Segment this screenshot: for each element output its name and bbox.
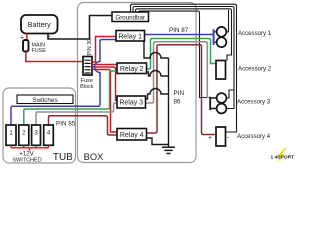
wire red pin30 feed to relay 2	[92, 64, 117, 66]
wire ground accessory 4 to groundbar	[131, 4, 237, 132]
svg-text:PIN: PIN	[174, 90, 185, 97]
svg-text:Switches: Switches	[32, 97, 57, 104]
main fuse F1	[23, 40, 29, 52]
wire ground relay 3 (with hop)	[146, 89, 169, 99]
wire red pin30 feed to relay 1	[92, 37, 116, 63]
fuse block FB1	[83, 57, 92, 76]
accessory 4 connector	[208, 127, 229, 146]
svg-text:BOX: BOX	[84, 152, 104, 162]
switch SW2	[19, 125, 29, 145]
svg-text:Battery: Battery	[28, 20, 51, 29]
wire gray output relay 3 to accessory 3	[146, 42, 210, 103]
wire maroon output relay 4 to accessory 4	[147, 45, 216, 135]
wire red pin30 feed to relay 3	[92, 67, 117, 101]
wire gray coil relay 3 to switch 3	[36, 103, 117, 125]
switch SW3	[32, 125, 41, 145]
svg-text:+: +	[208, 134, 212, 141]
wire ground relay 2 (with hop)	[147, 71, 169, 77]
relay U1	[116, 31, 145, 42]
logo 14SPORT	[271, 148, 295, 164]
switch SW4	[44, 125, 54, 145]
wire red pin30 feed to relay 4	[92, 70, 117, 133]
accessory 3 connector	[209, 93, 226, 113]
wire ground relay 1 (with hop)	[144, 41, 169, 58]
svg-text:Relay 3: Relay 3	[119, 100, 143, 107]
wire feed accessory 3 from groundbar side	[138, 11, 209, 97]
svg-text:86: 86	[174, 99, 182, 106]
svg-text:PIN 85: PIN 85	[56, 121, 76, 128]
accessory 2 connector	[216, 61, 226, 80]
groundbar GB	[112, 12, 149, 22]
svg-text:FUSE: FUSE	[32, 48, 47, 54]
svg-text:Accessory 3: Accessory 3	[237, 98, 271, 105]
svg-text:Relay 4: Relay 4	[120, 132, 144, 139]
svg-text:PIN 30: PIN 30	[87, 39, 93, 56]
wire ground relay 4	[147, 138, 169, 145]
svg-text:-: -	[227, 134, 229, 141]
svg-text:Accessory 2: Accessory 2	[238, 65, 272, 72]
wire green output relay 2 to accessory 2	[147, 39, 217, 70]
+12V bus wire	[11, 145, 49, 151]
wire battery + to main fuse	[26, 34, 28, 41]
enclosure BOX	[78, 3, 197, 163]
switch SW1	[6, 125, 16, 145]
svg-text:Accessory 1: Accessory 1	[238, 30, 272, 37]
svg-text:1 4SPORT: 1 4SPORT	[271, 155, 295, 161]
wire maroon coil relay 4 to switch 4	[49, 116, 118, 135]
wire main fuse to fuse block	[26, 52, 83, 62]
accessory 1 connector	[213, 27, 227, 47]
svg-text:TUB: TUB	[53, 152, 73, 163]
switches label box	[17, 95, 73, 104]
wire blue output relay 1 to accessory 1	[145, 34, 214, 36]
relay U3	[117, 96, 146, 108]
svg-text:Accessory 4: Accessory 4	[237, 133, 271, 140]
wire blue coil relay 1 to switch 1 (with hop)	[11, 40, 116, 126]
svg-text:Groundbar: Groundbar	[115, 15, 145, 22]
wire ground accessory 3 to groundbar	[133, 7, 234, 109]
relay U2	[117, 63, 147, 74]
enclosure TUB	[3, 88, 76, 163]
wire ground accessory 3 circle 1	[226, 90, 234, 98]
wire ground accessory 1	[226, 10, 228, 32]
wire green coil relay 2 to switch 2	[24, 71, 117, 125]
svg-text:Relay 1: Relay 1	[118, 34, 142, 41]
ground line PIN 86	[168, 58, 170, 147]
svg-text:Relay 2: Relay 2	[120, 66, 144, 73]
svg-text:PIN 87: PIN 87	[169, 27, 189, 34]
battery BT1	[21, 15, 58, 34]
relay U4	[117, 129, 147, 141]
wire battery negative to groundbar	[48, 16, 112, 40]
svg-text:SWITCHED: SWITCHED	[12, 157, 41, 163]
svg-text:Block: Block	[80, 84, 94, 90]
ground symbol	[162, 147, 175, 153]
wire ground accessory 2 to groundbar	[136, 9, 232, 61]
